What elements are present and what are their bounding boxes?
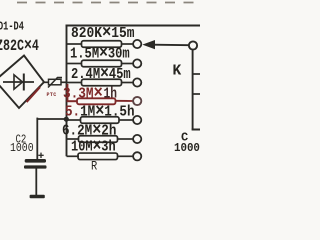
- svg-text:Z82C×4: Z82C×4: [0, 35, 39, 56]
- svg-text:D1-D4: D1-D4: [0, 20, 24, 34]
- svg-text:1000: 1000: [10, 142, 34, 155]
- svg-text:K: K: [173, 64, 182, 80]
- svg-text:1M×1.5h: 1M×1.5h: [80, 100, 134, 121]
- svg-text:6.2M×2h: 6.2M×2h: [62, 119, 116, 140]
- svg-text:PTC: PTC: [47, 92, 57, 98]
- svg-text:820K×15m: 820K×15m: [71, 23, 135, 43]
- svg-text:R: R: [91, 159, 97, 174]
- svg-text:1h: 1h: [104, 85, 118, 102]
- svg-text:1000: 1000: [174, 143, 200, 156]
